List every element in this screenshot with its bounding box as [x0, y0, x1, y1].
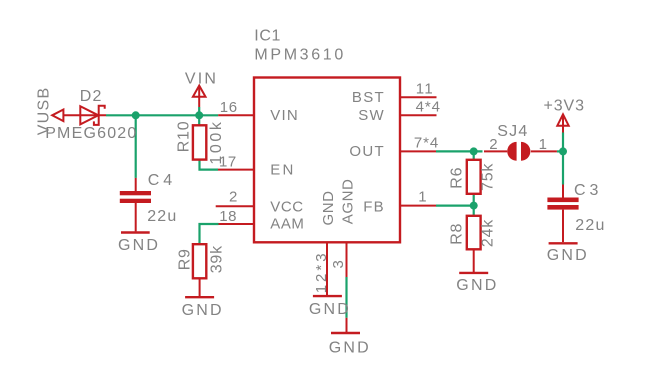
svg-text:11: 11	[416, 80, 434, 97]
wire R6 to R8	[473, 194, 475, 216]
pin 11 BST	[400, 96, 437, 98]
svg-text:+3V3: +3V3	[544, 98, 585, 115]
svg-text:FB: FB	[363, 198, 385, 215]
solder jumper SJ4	[507, 142, 516, 161]
wire AGND net	[345, 277, 347, 318]
svg-text:GND: GND	[320, 191, 337, 226]
R9 lead	[199, 278, 201, 296]
svg-text:VUSB: VUSB	[36, 87, 53, 136]
wire FB horizontal	[436, 205, 474, 207]
wire R10 to EN pin	[200, 160, 219, 170]
svg-text:GND: GND	[329, 340, 371, 357]
ground symbol C3	[549, 242, 578, 244]
svg-text:75k: 75k	[480, 163, 497, 191]
wire OUT to SJ4	[436, 150, 483, 152]
svg-text:VIN: VIN	[185, 71, 218, 88]
capacitor C4	[135, 178, 137, 191]
net flag VUSB	[52, 110, 63, 122]
ground symbol IC pin 12*3	[313, 295, 342, 297]
IC U1 body MPM3610	[254, 78, 400, 243]
supply symbol +3V3	[557, 114, 568, 125]
svg-text:22u: 22u	[147, 208, 177, 225]
diode D2 PMEG6020	[80, 106, 98, 124]
junction node FB-R8	[470, 202, 478, 210]
svg-text:GND: GND	[118, 237, 160, 254]
svg-text:24k: 24k	[480, 219, 497, 247]
svg-text:1: 1	[418, 189, 427, 206]
svg-text:R6: R6	[448, 167, 465, 189]
svg-text:1: 1	[539, 136, 548, 153]
svg-text:GND: GND	[182, 302, 224, 319]
supply symbol VIN	[193, 86, 206, 97]
svg-text:SJ4: SJ4	[497, 123, 528, 140]
svg-text:AAM: AAM	[270, 215, 304, 232]
pin 2 VCC	[216, 205, 254, 207]
svg-text:GND: GND	[309, 301, 351, 318]
junction node OUT-R6	[470, 147, 478, 155]
svg-text:OUT: OUT	[349, 143, 385, 160]
svg-text:2: 2	[489, 136, 498, 153]
wire SJ4 to 3V3 node	[557, 150, 563, 152]
svg-text:D2: D2	[80, 88, 103, 105]
wire 3V3 supply drop	[562, 133, 564, 152]
svg-text:BST: BST	[352, 89, 385, 106]
pin 16 VIN	[218, 114, 254, 116]
pin 4*4 SW	[400, 114, 437, 116]
wire net VUSB-VIN horizontal	[106, 114, 218, 116]
svg-text:39k: 39k	[209, 245, 226, 273]
resistor R9	[193, 244, 206, 278]
svg-text:GND: GND	[456, 277, 498, 294]
resistor R8	[467, 216, 481, 250]
svg-text:12*3: 12*3	[313, 250, 330, 293]
wire VIN supply to R10	[198, 107, 200, 125]
svg-text:2: 2	[229, 189, 238, 206]
svg-text:PMEG6020: PMEG6020	[45, 125, 137, 142]
svg-text:SW: SW	[358, 107, 385, 124]
resistor R6	[467, 160, 481, 194]
pin 1 FB	[400, 205, 436, 207]
capacitor C3	[562, 185, 564, 198]
ground symbol AGND net	[346, 318, 348, 333]
pin 7*4 OUT	[400, 150, 436, 152]
pin 17 EN	[218, 169, 254, 171]
resistor R10	[193, 125, 206, 159]
svg-text:4*4: 4*4	[416, 98, 441, 115]
junction node 3V3-C3	[559, 147, 567, 155]
svg-text:MPM3610: MPM3610	[254, 46, 345, 63]
svg-text:GND: GND	[547, 247, 589, 264]
svg-text:IC1: IC1	[254, 28, 281, 45]
pin 12*3 GND	[326, 242, 328, 296]
wire OUT junction to R6	[473, 151, 475, 159]
pin 3 AGND	[346, 242, 348, 277]
svg-text:R8: R8	[448, 223, 465, 245]
svg-text:7*4: 7*4	[414, 135, 439, 152]
svg-text:VCC: VCC	[270, 198, 303, 215]
svg-text:18: 18	[219, 208, 237, 225]
svg-text:VIN: VIN	[270, 107, 299, 124]
svg-text:16: 16	[220, 99, 238, 116]
svg-text:C3: C3	[574, 182, 602, 199]
svg-text:100k: 100k	[208, 119, 225, 164]
junction node VIN-C4	[132, 111, 140, 119]
svg-text:AGND: AGND	[339, 179, 356, 225]
junction node VIN-R10	[195, 111, 203, 119]
svg-text:22u: 22u	[575, 217, 605, 234]
svg-text:R10: R10	[175, 121, 192, 153]
pin 18 AAM	[219, 223, 255, 225]
ground symbol C4	[121, 231, 150, 233]
wire node to C3	[562, 151, 564, 184]
ground symbol R9	[185, 296, 214, 298]
wire C4 drop	[135, 115, 137, 178]
svg-text:C4: C4	[148, 172, 176, 189]
wire AAM pin to R9	[200, 224, 219, 244]
svg-text:3: 3	[330, 260, 347, 269]
R8 lead	[473, 249, 475, 272]
ground symbol R8	[459, 272, 488, 274]
svg-text:EN: EN	[270, 162, 295, 179]
svg-text:R9: R9	[177, 248, 194, 270]
